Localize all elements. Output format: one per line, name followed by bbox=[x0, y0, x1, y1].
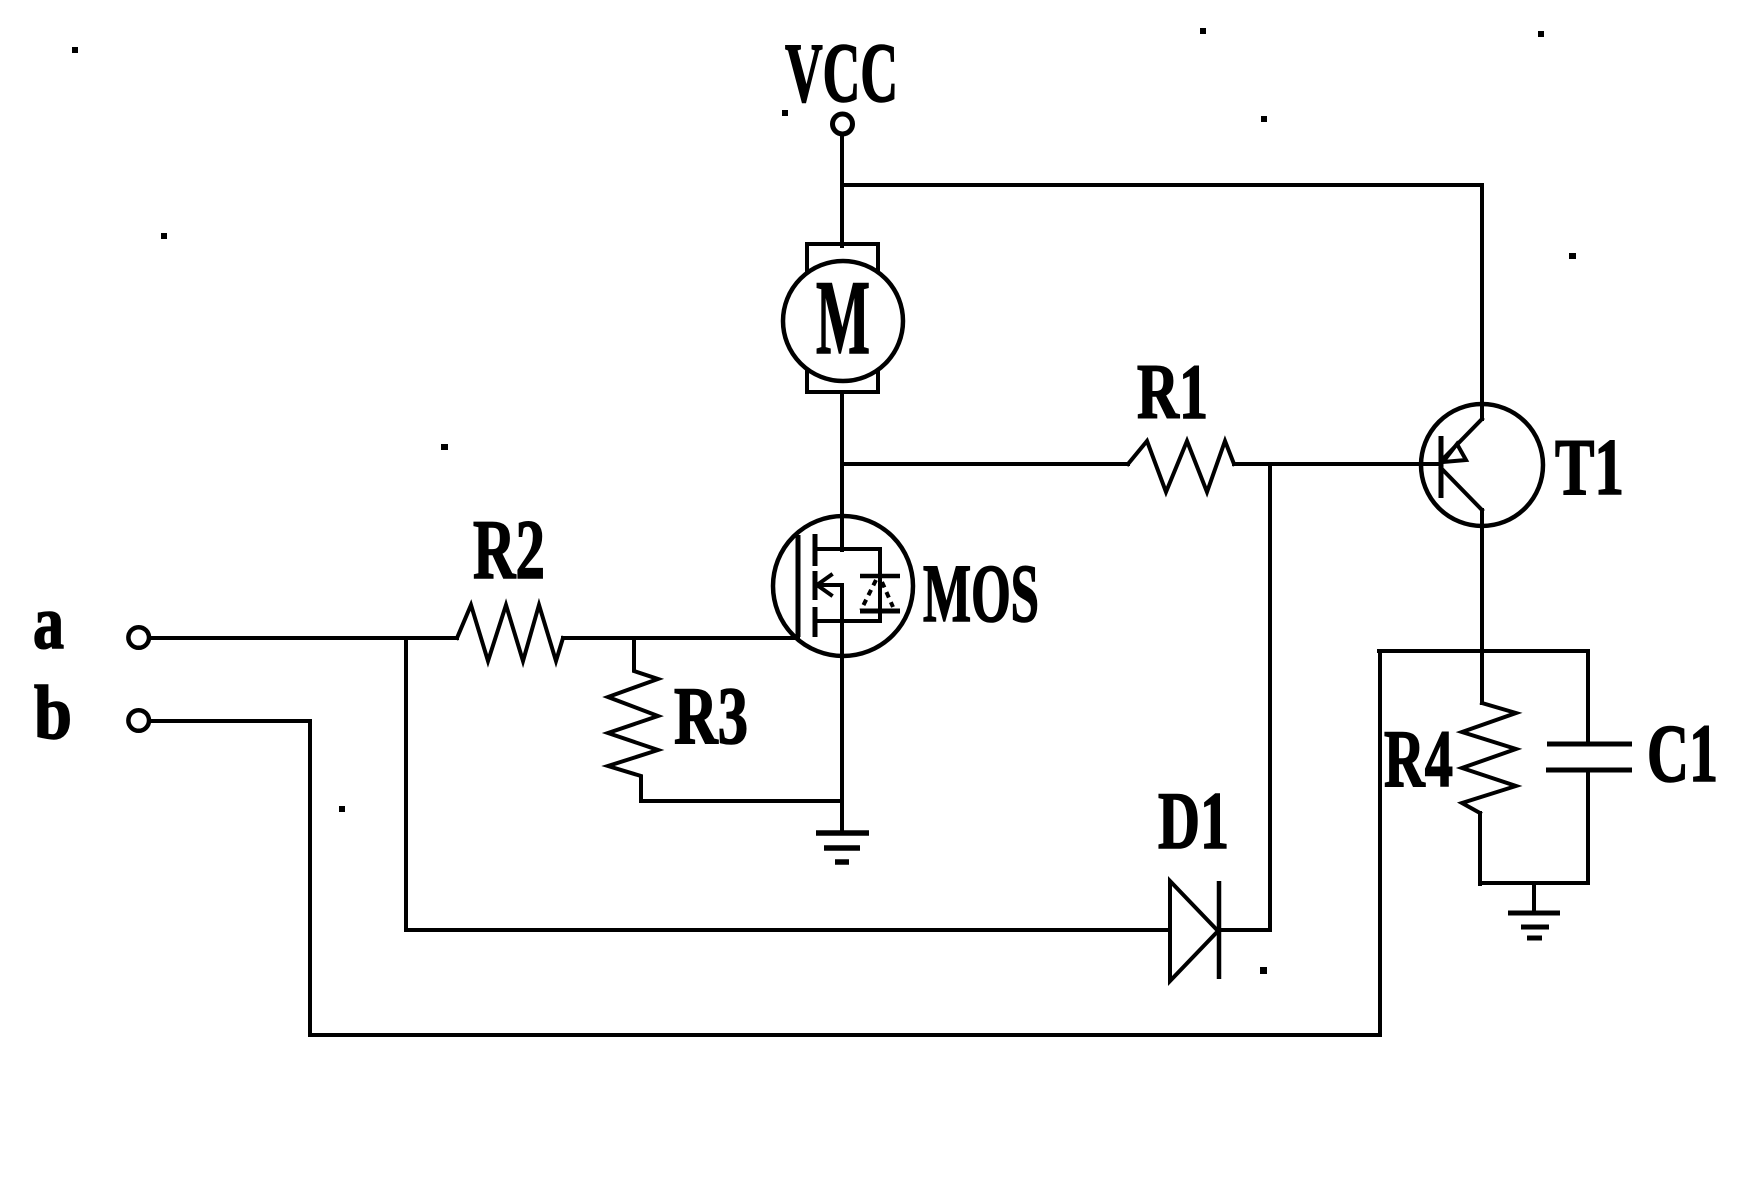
MOSFET gate bar bbox=[796, 535, 801, 637]
wire riser junction R1 line to D1 cathode bbox=[1268, 464, 1272, 930]
wire T1 collector to R4 bbox=[1480, 510, 1484, 703]
capacitor C1 bottom plate bbox=[1546, 768, 1632, 773]
svg-text:MOS: MOS bbox=[923, 547, 1039, 639]
capacitor C1 top plate bbox=[1547, 742, 1632, 747]
svg-text:T1: T1 bbox=[1555, 424, 1624, 512]
wire terminal a to R2 bbox=[150, 636, 457, 640]
resistor R3 zigzag with leads bbox=[608, 638, 658, 800]
MOSFET body diode anode bar bbox=[860, 609, 900, 614]
wire R3 bottom to source bbox=[641, 799, 842, 803]
MOSFET source stub bbox=[815, 619, 880, 623]
T1 collector diagonal bbox=[1441, 468, 1482, 510]
svg-text:D1: D1 bbox=[1158, 775, 1229, 866]
svg-text:M: M bbox=[816, 259, 870, 376]
MOSFET body circle bbox=[773, 516, 913, 656]
wire RC box top bbox=[1379, 649, 1588, 653]
svg-text:C1: C1 bbox=[1647, 707, 1718, 799]
wire D1 cathode to riser bbox=[1219, 928, 1270, 932]
resistor R1 zigzag bbox=[1128, 441, 1234, 492]
svg-text:VCC: VCC bbox=[785, 26, 898, 120]
MOSFET body diode cathode bar bbox=[860, 574, 900, 579]
svg-text:b: b bbox=[34, 671, 72, 755]
wire C1 upper lead bbox=[1586, 651, 1590, 744]
svg-text:R4: R4 bbox=[1384, 713, 1453, 804]
wire motor bottom to MOSFET drain bbox=[840, 392, 844, 550]
MOSFET channel dashed bar bbox=[813, 534, 818, 637]
wire RC box bottom bbox=[1480, 881, 1588, 885]
svg-text:R3: R3 bbox=[674, 670, 748, 761]
terminal a circle bbox=[128, 627, 149, 648]
motor M body circle bbox=[783, 261, 903, 381]
terminal b circle bbox=[128, 710, 149, 731]
noise dots bbox=[72, 28, 1576, 974]
wire R2 to MOSFET gate bbox=[563, 636, 798, 640]
svg-text:R2: R2 bbox=[473, 503, 545, 597]
wire top rail VCC node to T1 emitter bbox=[842, 185, 1482, 419]
diode D1 triangle bbox=[1170, 881, 1218, 981]
wire drain node to R1 bbox=[842, 462, 1128, 466]
wire R4 bottom lead bbox=[1478, 813, 1482, 884]
wire C1 lower lead bbox=[1586, 770, 1590, 883]
resistor R2 zigzag bbox=[457, 605, 563, 661]
T1 base bar bbox=[1439, 436, 1444, 498]
T1 emitter diagonal bbox=[1442, 419, 1482, 460]
MOSFET drain stub bbox=[815, 547, 880, 551]
wire terminal b to RC box bbox=[150, 651, 1380, 1035]
svg-text:a: a bbox=[33, 581, 64, 665]
transistor T1 circle bbox=[1421, 404, 1543, 526]
motor M frame rectangle bbox=[807, 244, 878, 392]
diode D1 cathode bar bbox=[1217, 881, 1222, 979]
ground under MOSFET bbox=[816, 833, 869, 862]
MOSFET source lead to ground bbox=[840, 585, 844, 832]
resistor R4 zigzag bbox=[1462, 703, 1516, 813]
T1 emitter arrow bbox=[1443, 444, 1466, 462]
MOSFET body diode dashed sides bbox=[861, 580, 893, 610]
wire to D1 anode bbox=[406, 928, 1169, 932]
wire riser a-line to D1 anode bbox=[404, 638, 408, 930]
wire R1 to T1 base bbox=[1234, 462, 1441, 466]
ground under RC box bbox=[1508, 883, 1560, 938]
MOSFET drain-source right branch bbox=[878, 549, 882, 621]
wire VCC stem to motor bbox=[840, 134, 844, 246]
MOSFET body stub with arrow bbox=[817, 575, 842, 595]
VCC terminal circle bbox=[833, 114, 853, 134]
svg-text:R1: R1 bbox=[1137, 348, 1208, 435]
